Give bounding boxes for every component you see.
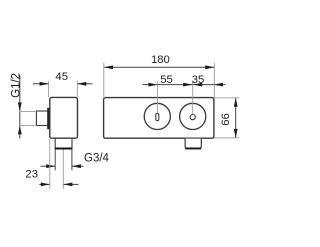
svg-text:55: 55	[160, 74, 173, 86]
svg-text:23: 23	[25, 169, 38, 181]
svg-text:180: 180	[151, 54, 170, 66]
svg-text:66: 66	[220, 113, 232, 126]
svg-text:G3/4: G3/4	[84, 153, 110, 165]
svg-text:45: 45	[55, 71, 68, 83]
svg-text:G1/2: G1/2	[10, 73, 22, 98]
svg-text:35: 35	[192, 74, 205, 86]
